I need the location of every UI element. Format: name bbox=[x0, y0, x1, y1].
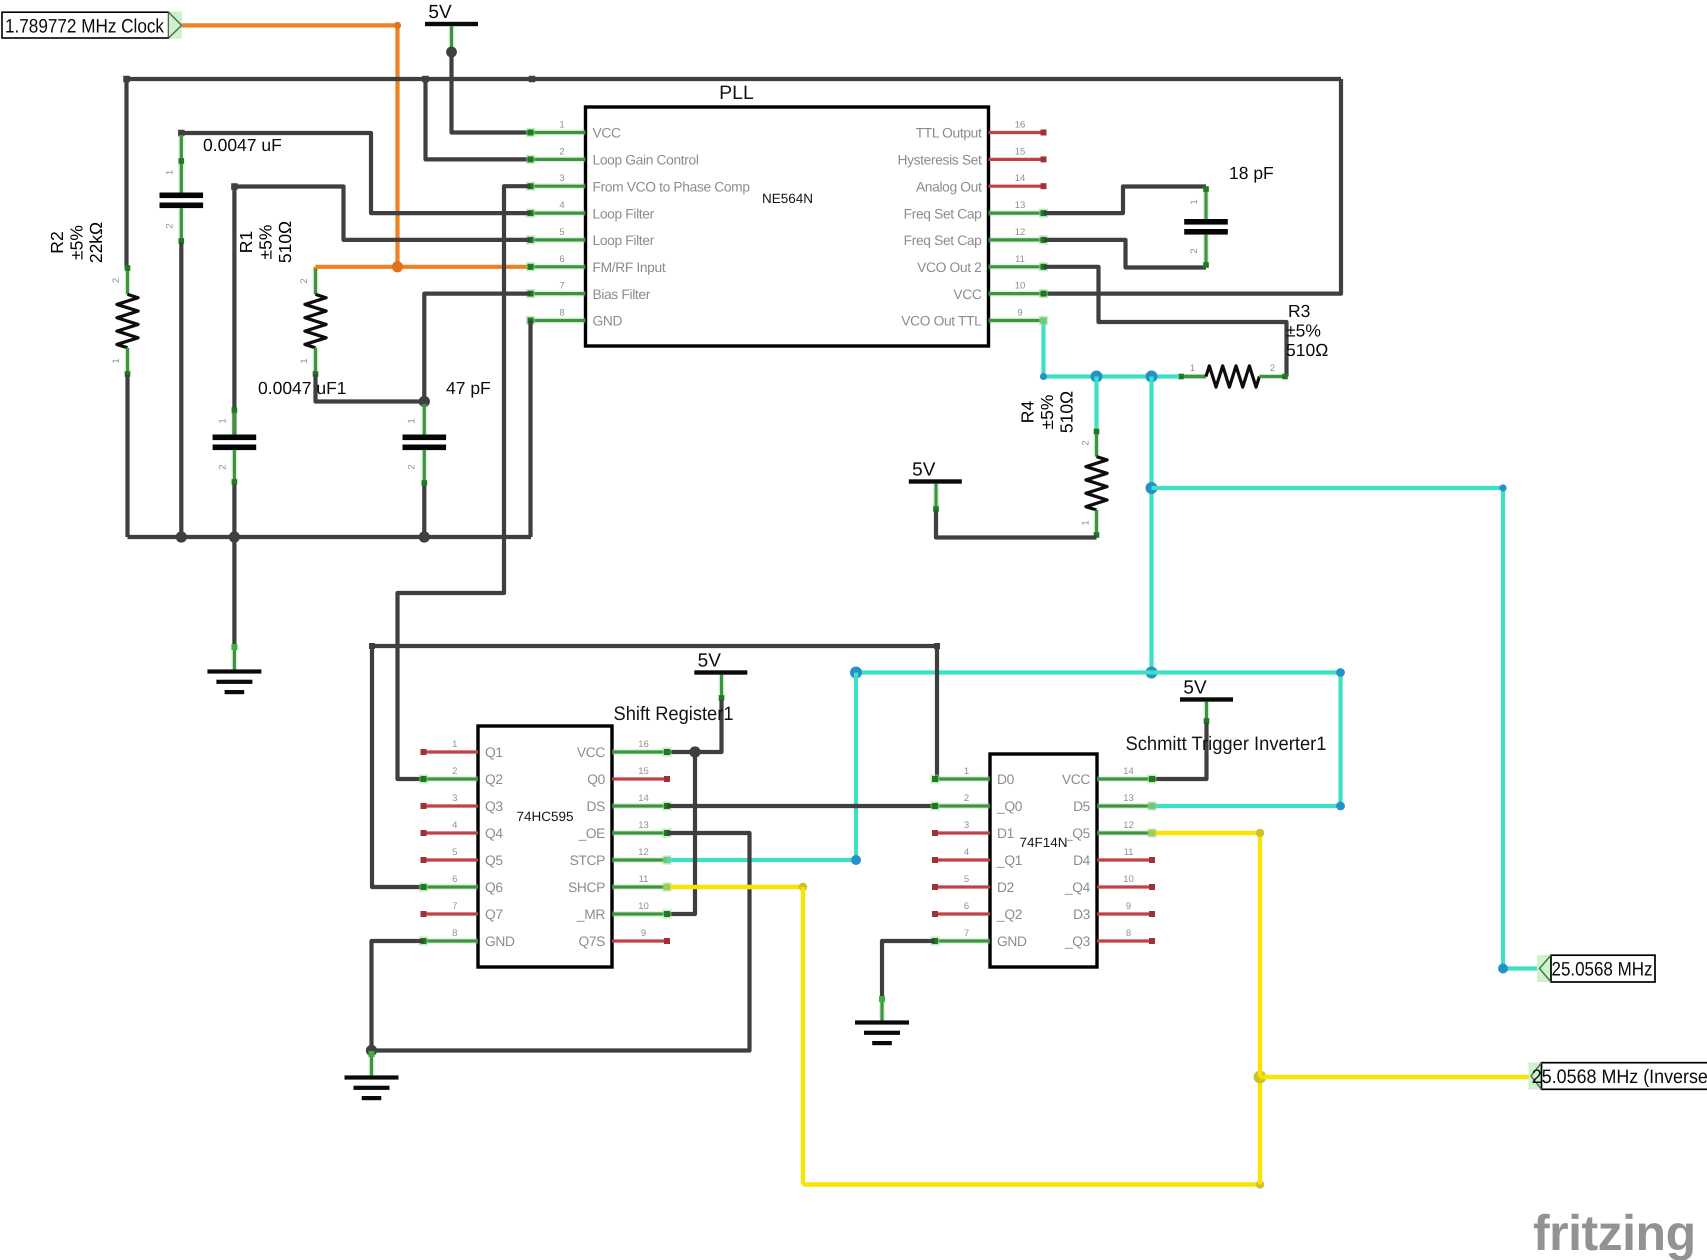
pin 9 VCO Out TTL (PLL right) bbox=[901, 308, 1048, 329]
svg-text:7: 7 bbox=[559, 281, 564, 292]
pin 6 FM/RF Input (PLL left) bbox=[526, 254, 666, 275]
capacitor C2 0.0047 uF1 bbox=[213, 407, 257, 485]
pin 8 GND (74HC595 left) bbox=[419, 928, 515, 949]
svg-text:1: 1 bbox=[111, 358, 122, 363]
node SR rail left corner bbox=[369, 643, 375, 649]
svg-text:Q0: Q0 bbox=[587, 772, 605, 787]
svg-text:fritzing: fritzing bbox=[1533, 1205, 1696, 1260]
ground G3 bbox=[855, 1020, 909, 1045]
svg-text:4: 4 bbox=[559, 200, 564, 211]
svg-text:3: 3 bbox=[964, 820, 969, 831]
wire R1 bottom to junction bbox=[316, 375, 425, 402]
svg-text:Freq Set Cap: Freq Set Cap bbox=[904, 233, 983, 248]
pin 14 DS (74HC595 right) bbox=[587, 793, 672, 814]
node cyan bend out1 bbox=[1499, 484, 1506, 491]
svg-text:510Ω: 510Ω bbox=[1286, 340, 1328, 360]
ground G1 bbox=[207, 669, 261, 694]
svg-text:2: 2 bbox=[218, 464, 229, 469]
pin 12 _Q5 (74F14N right) bbox=[1064, 820, 1157, 841]
svg-text:1: 1 bbox=[1189, 199, 1200, 204]
svg-text:From VCO to Phase Comp: From VCO to Phase Comp bbox=[593, 179, 751, 194]
pin 12 Freq Set Cap (PLL right) bbox=[904, 227, 1048, 248]
op-amp/IC U1 PLL NE564N body bbox=[586, 82, 989, 346]
svg-text:11: 11 bbox=[1124, 847, 1134, 858]
svg-text:_MR: _MR bbox=[576, 907, 605, 922]
pin 15 Q0 (74HC595 right) bbox=[587, 766, 670, 787]
pin numbers R1 bbox=[299, 278, 310, 363]
label C2 value bbox=[258, 378, 347, 398]
pin numbers C3 bbox=[407, 418, 418, 469]
pin 2 _Q0 (74F14N left) bbox=[930, 793, 1022, 814]
IC U2 74HC595 Shift Register1 body bbox=[478, 703, 734, 967]
pin 8 GND (PLL left) bbox=[526, 308, 623, 329]
svg-text:Q4: Q4 bbox=[485, 826, 503, 841]
wire GND F14 to ground bbox=[882, 941, 935, 996]
fritzing watermark bbox=[1533, 1205, 1696, 1260]
wire GND pin8 down to rail bbox=[528, 321, 532, 538]
wire From-VCO pin3 to 74HC595 Q2 bbox=[398, 186, 531, 779]
pin 10 _Q4 (74F14N right) bbox=[1064, 874, 1155, 895]
wire CLK orange horizontal bbox=[182, 23, 398, 27]
svg-text:2: 2 bbox=[964, 793, 969, 804]
node rail junction C2/gnd bbox=[229, 531, 240, 542]
node rail junction C1 bbox=[176, 531, 187, 542]
svg-text:2: 2 bbox=[1270, 363, 1275, 374]
node cyan bend out2 bbox=[1498, 964, 1508, 974]
wire CLK orange vertical bbox=[395, 25, 399, 267]
pin 2 Q2 (74HC595 left) bbox=[419, 766, 503, 787]
node yellow SHCP end bbox=[664, 884, 671, 891]
svg-text:Q2: Q2 bbox=[485, 772, 503, 787]
pin 13 _OE (74HC595 right) bbox=[577, 820, 671, 841]
svg-text:5: 5 bbox=[452, 847, 457, 858]
node SHCP tip bbox=[664, 884, 670, 890]
wire yellow SHCP out bbox=[667, 885, 803, 889]
resistor R3 bbox=[1178, 366, 1288, 387]
svg-text:10: 10 bbox=[1123, 874, 1134, 885]
wire 5V to VCC pin1 bbox=[452, 52, 531, 133]
wire yellow up bbox=[1258, 1077, 1262, 1185]
svg-text:13: 13 bbox=[638, 820, 649, 831]
svg-text:14: 14 bbox=[1123, 766, 1134, 777]
node orange junction at R1/pin6 bbox=[392, 261, 403, 272]
svg-text:D2: D2 bbox=[997, 880, 1014, 895]
pin 1 D0 (74F14N left) bbox=[930, 766, 1014, 787]
ground G2 bbox=[345, 1075, 399, 1100]
svg-text:Shift Register1: Shift Register1 bbox=[614, 703, 734, 725]
svg-text:14: 14 bbox=[1015, 173, 1026, 184]
node rail connection A bbox=[422, 76, 429, 83]
svg-text:Hysteresis Set: Hysteresis Set bbox=[897, 153, 982, 168]
svg-text:R1: R1 bbox=[236, 231, 256, 253]
svg-text:D0: D0 bbox=[997, 772, 1015, 787]
svg-text:D1: D1 bbox=[997, 826, 1014, 841]
pin stub ground G3 bbox=[879, 996, 885, 1022]
label R2 value bbox=[47, 222, 106, 263]
svg-text:Loop Filter: Loop Filter bbox=[593, 233, 655, 248]
svg-text:11: 11 bbox=[639, 874, 649, 885]
pin 5 Loop Filter (PLL left) bbox=[526, 227, 655, 248]
pin 4 Q4 (74HC595 left) bbox=[421, 820, 504, 841]
pin 13 D5 (74F14N right) bbox=[1073, 793, 1157, 814]
svg-text:11: 11 bbox=[1015, 254, 1025, 265]
wire yellow bottom bbox=[803, 1182, 1260, 1186]
pin 11 D4 (74F14N right) bbox=[1073, 847, 1155, 868]
wire C2 bottom to rail bbox=[232, 485, 236, 538]
svg-text:_Q4: _Q4 bbox=[1064, 880, 1091, 895]
svg-text:7: 7 bbox=[452, 901, 457, 912]
svg-text:6: 6 bbox=[964, 901, 969, 912]
svg-text:±5%: ±5% bbox=[1286, 321, 1321, 341]
wire rail right end down to VCC pin10 bbox=[1044, 79, 1342, 294]
node yellow bend3 bbox=[1256, 829, 1264, 837]
svg-text:13: 13 bbox=[1123, 793, 1134, 804]
wire cyan to R4 bbox=[1094, 377, 1098, 430]
label R1 value bbox=[236, 221, 295, 263]
power 5V (PLL VCC) bbox=[425, 2, 478, 26]
wire cyan VCO Out TTL pin9 down bbox=[1044, 321, 1180, 377]
wire Freq Set Cap pin13 to C4 bbox=[1044, 187, 1207, 214]
node junction R1/C3/pin7 bbox=[419, 396, 430, 407]
wire rail down to Q6 bbox=[372, 646, 424, 887]
svg-text:9: 9 bbox=[1126, 901, 1131, 912]
svg-text:12: 12 bbox=[1123, 820, 1134, 831]
wire _OE down to bottom rail bbox=[372, 833, 750, 1051]
svg-text:Schmitt Trigger Inverter1: Schmitt Trigger Inverter1 bbox=[1126, 733, 1327, 755]
net label CLK 1.789772 MHz Clock bbox=[2, 12, 182, 39]
pin 5 Q5 (74HC595 left) bbox=[421, 847, 504, 868]
wire 5V to R4 pin1 bbox=[936, 511, 1097, 538]
svg-text:8: 8 bbox=[452, 928, 457, 939]
pin stub 5V F14 bbox=[1203, 702, 1209, 724]
pin 16 TTL Output (PLL right) bbox=[916, 120, 1047, 141]
pin 7 Bias Filter (PLL left) bbox=[526, 281, 651, 302]
label R3 value bbox=[1286, 301, 1328, 360]
pin 3 Q3 (74HC595 left) bbox=[421, 793, 504, 814]
svg-text:10: 10 bbox=[1015, 281, 1026, 292]
svg-text:2: 2 bbox=[452, 766, 457, 777]
pin 14 VCC (74F14N right) bbox=[1062, 766, 1157, 787]
svg-text:±5%: ±5% bbox=[67, 225, 87, 260]
wire VCO Out 2 pin11 to R3 pin2 bbox=[1044, 267, 1287, 377]
svg-text:VCC: VCC bbox=[953, 287, 981, 302]
pin numbers R3 bbox=[1190, 363, 1275, 374]
svg-text:GND: GND bbox=[485, 934, 515, 949]
pin 11 SHCP (74HC595 right) bbox=[568, 874, 672, 895]
node yellow bend2 bbox=[1256, 1180, 1264, 1188]
svg-text:R3: R3 bbox=[1288, 301, 1310, 321]
svg-text:2: 2 bbox=[1189, 248, 1200, 253]
svg-text:5V: 5V bbox=[698, 651, 722, 672]
node yellow _Q5 end bbox=[1149, 830, 1156, 837]
node cyan bend STCP bbox=[851, 855, 861, 865]
pin 5 D2 (74F14N left) bbox=[932, 874, 1014, 895]
svg-text:Q5: Q5 bbox=[485, 853, 503, 868]
svg-text:Bias Filter: Bias Filter bbox=[593, 287, 651, 302]
pin 1 VCC (PLL left) bbox=[526, 120, 621, 141]
node D5 tip bbox=[1149, 803, 1155, 809]
svg-text:510Ω: 510Ω bbox=[275, 221, 295, 263]
node orange bendpoint bbox=[394, 22, 401, 29]
svg-text:VCC: VCC bbox=[577, 745, 605, 760]
node yellow bend1 bbox=[799, 883, 807, 891]
node C1 top corner bbox=[178, 130, 185, 137]
svg-text:510Ω: 510Ω bbox=[1057, 391, 1077, 433]
svg-text:8: 8 bbox=[559, 308, 564, 319]
svg-text:_Q1: _Q1 bbox=[996, 853, 1022, 868]
pin 10 _MR (74HC595 right) bbox=[576, 901, 672, 922]
svg-text:Q7S: Q7S bbox=[578, 934, 605, 949]
pin stub 5V R4 bbox=[933, 484, 939, 512]
svg-text:Freq Set Cap: Freq Set Cap bbox=[904, 206, 983, 221]
svg-text:R2: R2 bbox=[47, 231, 67, 253]
net label OUTINV 25.0568 MHz (Inversed) bbox=[1529, 1063, 1707, 1090]
power 5V (74F14N) bbox=[1180, 678, 1233, 702]
svg-text:_Q3: _Q3 bbox=[1064, 934, 1091, 949]
svg-text:7: 7 bbox=[964, 928, 969, 939]
power 5V (R4) bbox=[909, 460, 962, 484]
svg-text:4: 4 bbox=[452, 820, 457, 831]
svg-text:_OE: _OE bbox=[577, 826, 605, 841]
node 5V junction dot bbox=[446, 47, 457, 58]
svg-text:2: 2 bbox=[559, 146, 564, 157]
svg-text:2: 2 bbox=[1081, 440, 1092, 445]
wire R2 bottom to rail bbox=[125, 375, 129, 538]
wire C3 bottom to rail bbox=[422, 486, 426, 537]
node SR rail right corner bbox=[934, 643, 940, 649]
svg-text:_Q5: _Q5 bbox=[1064, 826, 1091, 841]
wire VCC to _MR bbox=[667, 752, 695, 914]
pin 14 Analog Out (PLL right) bbox=[916, 173, 1047, 194]
pin 6 _Q2 (74F14N left) bbox=[932, 901, 1022, 922]
svg-text:1: 1 bbox=[299, 358, 310, 363]
wire cyan right to D5 bbox=[1152, 673, 1341, 807]
svg-text:2: 2 bbox=[299, 278, 310, 283]
node cyan junction STCP bbox=[850, 667, 862, 679]
svg-text:16: 16 bbox=[1015, 120, 1026, 131]
wire yellow down bbox=[801, 887, 805, 1185]
svg-text:13: 13 bbox=[1015, 200, 1026, 211]
wire DS to _Q0 bbox=[667, 804, 935, 808]
resistor R1 bbox=[305, 269, 326, 377]
pin 11 VCO Out 2 (PLL right) bbox=[917, 254, 1048, 275]
svg-text:Q3: Q3 bbox=[485, 799, 503, 814]
wire bottom rail (PLL) bbox=[128, 535, 532, 539]
svg-text:R4: R4 bbox=[1018, 401, 1038, 424]
svg-text:2: 2 bbox=[407, 464, 418, 469]
svg-text:16: 16 bbox=[638, 739, 649, 750]
node cyan bend pin9 bbox=[1040, 373, 1047, 380]
wire GND595 to ground bbox=[372, 941, 424, 1051]
pin 12 STCP (74HC595 right) bbox=[570, 847, 672, 868]
wire rail to ground symbol bbox=[232, 537, 236, 644]
wire yellow from _Q5 bbox=[1152, 833, 1260, 1077]
pin numbers C4 bbox=[1189, 199, 1200, 253]
node rail left corner bbox=[123, 76, 130, 83]
capacitor C4 18 pF bbox=[1184, 186, 1228, 268]
resistor R4 bbox=[1086, 429, 1107, 538]
svg-text:2: 2 bbox=[165, 223, 176, 228]
svg-text:1: 1 bbox=[1081, 520, 1092, 525]
pin 3 From VCO to Phase Comp (PLL left) bbox=[526, 173, 750, 194]
svg-text:3: 3 bbox=[559, 173, 564, 184]
svg-text:2: 2 bbox=[111, 278, 122, 283]
svg-text:74F14N: 74F14N bbox=[1019, 835, 1067, 850]
pin 13 Freq Set Cap (PLL right) bbox=[904, 200, 1048, 221]
svg-text:Q7: Q7 bbox=[485, 907, 503, 922]
svg-text:GND: GND bbox=[997, 934, 1027, 949]
svg-text:Loop Filter: Loop Filter bbox=[593, 206, 655, 221]
svg-text:TTL Output: TTL Output bbox=[916, 126, 982, 141]
svg-text:74HC595: 74HC595 bbox=[516, 809, 573, 824]
svg-text:Q1: Q1 bbox=[485, 745, 503, 760]
svg-text:18 pF: 18 pF bbox=[1229, 163, 1274, 183]
node _Q5 tip bbox=[1149, 830, 1155, 836]
label C4 value bbox=[1229, 163, 1274, 183]
svg-text:Analog Out: Analog Out bbox=[916, 179, 982, 194]
node cyan junction main bbox=[1146, 371, 1158, 383]
pin 4 Loop Filter (PLL left) bbox=[526, 200, 655, 221]
svg-text:9: 9 bbox=[1017, 308, 1022, 319]
svg-text:15: 15 bbox=[1015, 146, 1026, 157]
svg-text:_Q2: _Q2 bbox=[996, 907, 1022, 922]
net label OUT 25.0568 MHz bbox=[1537, 955, 1655, 982]
pin 7 Q7 (74HC595 left) bbox=[421, 901, 503, 922]
pin 16 VCC (74HC595 right) bbox=[577, 739, 672, 760]
svg-text:NE564N: NE564N bbox=[762, 191, 813, 206]
svg-text:±5%: ±5% bbox=[256, 225, 276, 260]
wire Freq Set Cap pin12 to C4 bbox=[1044, 240, 1207, 268]
svg-text:47 pF: 47 pF bbox=[446, 378, 491, 398]
node junction ground SR bbox=[366, 1045, 377, 1056]
svg-text:9: 9 bbox=[641, 928, 646, 939]
svg-text:±5%: ±5% bbox=[1037, 395, 1057, 430]
pin 2 Loop Gain Control (PLL left) bbox=[526, 146, 699, 167]
svg-text:1: 1 bbox=[407, 418, 418, 423]
svg-text:GND: GND bbox=[593, 314, 623, 329]
power 5V (74HC595) bbox=[694, 651, 747, 675]
svg-text:1: 1 bbox=[1190, 363, 1195, 374]
wire Bias Filter pin7 to junction bbox=[424, 294, 530, 402]
svg-text:1: 1 bbox=[452, 739, 457, 750]
wire cyan to output label bbox=[1152, 488, 1540, 969]
node cyan junction row bbox=[1146, 667, 1158, 679]
pin numbers R4 bbox=[1081, 440, 1092, 525]
pin stub 5V 595 bbox=[718, 675, 724, 701]
node yellow junction bbox=[1254, 1071, 1267, 1084]
svg-text:VCO Out 2: VCO Out 2 bbox=[917, 260, 981, 275]
svg-text:4: 4 bbox=[964, 847, 969, 858]
wire cyan down to STCP bbox=[667, 673, 856, 861]
wire 5V to VCC595 bbox=[667, 700, 722, 752]
pin numbers C2 bbox=[218, 418, 229, 469]
pin stub ground G2 bbox=[368, 1051, 374, 1077]
svg-text:1.789772 MHz Clock: 1.789772 MHz Clock bbox=[5, 16, 164, 38]
node junction VCC/_MR bbox=[689, 746, 700, 757]
label C3 value bbox=[446, 378, 491, 398]
wire C2 top to pin5 Loop Filter bbox=[234, 187, 530, 435]
wire top 5V rail bbox=[127, 77, 1342, 81]
wire C1 top to pin4 Loop Filter bbox=[181, 133, 530, 213]
wire rail to Loop Gain pin2 bbox=[426, 79, 531, 159]
svg-text:6: 6 bbox=[452, 874, 457, 885]
svg-text:1: 1 bbox=[964, 766, 969, 777]
node cyan end D5 bbox=[1149, 803, 1156, 810]
node cyan junction R4 bbox=[1091, 371, 1103, 383]
wire cyan horizontal row bbox=[856, 670, 1341, 674]
svg-text:FM/RF Input: FM/RF Input bbox=[593, 260, 666, 275]
svg-text:25.0568 MHz: 25.0568 MHz bbox=[1552, 959, 1653, 981]
svg-text:0.0047 uF: 0.0047 uF bbox=[203, 135, 282, 155]
IC U3 74F14N Schmitt Trigger Inverter1 body bbox=[990, 733, 1327, 967]
node cyan bend D5b bbox=[1336, 802, 1345, 811]
pin 1 Q1 (74HC595 left) bbox=[421, 739, 503, 760]
pin 10 VCC (PLL right) bbox=[953, 281, 1048, 302]
node cyan bend D5a bbox=[1336, 668, 1345, 677]
svg-text:1: 1 bbox=[165, 170, 176, 175]
svg-text:SHCP: SHCP bbox=[568, 880, 605, 895]
svg-text:5V: 5V bbox=[912, 460, 936, 481]
pin numbers C1 bbox=[165, 170, 176, 229]
svg-text:PLL: PLL bbox=[719, 82, 754, 104]
pin stub ground G1 bbox=[231, 644, 237, 671]
svg-text:5V: 5V bbox=[1183, 678, 1207, 699]
svg-text:D3: D3 bbox=[1073, 907, 1091, 922]
node rail connection B bbox=[529, 76, 536, 83]
svg-text:5: 5 bbox=[964, 874, 969, 885]
wire orange stub to R1 bbox=[313, 267, 317, 271]
svg-text:Loop Gain Control: Loop Gain Control bbox=[593, 153, 699, 168]
wire 5V to VCC F14 bbox=[1152, 723, 1207, 779]
svg-text:14: 14 bbox=[638, 793, 649, 804]
node pin9 tip bbox=[1040, 317, 1046, 323]
svg-text:22kΩ: 22kΩ bbox=[86, 222, 106, 263]
wire cyan main vertical bbox=[1149, 377, 1153, 673]
svg-text:12: 12 bbox=[1015, 227, 1026, 238]
capacitor C3 47 pF bbox=[403, 404, 447, 486]
svg-text:5: 5 bbox=[559, 227, 564, 238]
svg-text:6: 6 bbox=[559, 254, 564, 265]
svg-text:12: 12 bbox=[638, 847, 649, 858]
svg-text:VCO Out TTL: VCO Out TTL bbox=[901, 314, 982, 329]
svg-text:STCP: STCP bbox=[570, 853, 606, 868]
pin 6 Q6 (74HC595 left) bbox=[419, 874, 503, 895]
pin 7 GND (74F14N left) bbox=[930, 928, 1027, 949]
svg-text:15: 15 bbox=[638, 766, 649, 777]
wire CLK orange to FM/RF pin6 bbox=[316, 265, 531, 269]
wire rail down to D0 bbox=[936, 646, 937, 779]
pin 8 _Q3 (74F14N right) bbox=[1064, 928, 1155, 949]
pin 4 _Q1 (74F14N left) bbox=[932, 847, 1022, 868]
label R4 value bbox=[1018, 391, 1077, 433]
svg-text:Q6: Q6 bbox=[485, 880, 503, 895]
pin stub 5V PLL bbox=[448, 26, 454, 50]
capacitor C1 0.0047 uF bbox=[160, 135, 204, 244]
svg-text:25.0568 MHz (Inversed): 25.0568 MHz (Inversed) bbox=[1532, 1066, 1707, 1088]
pin 9 Q7S (74HC595 right) bbox=[578, 928, 670, 949]
svg-text:D4: D4 bbox=[1073, 853, 1091, 868]
svg-text:1: 1 bbox=[559, 120, 564, 131]
pin 15 Hysteresis Set (PLL right) bbox=[897, 146, 1046, 167]
node STCP tip bbox=[664, 857, 671, 863]
node cyan junction out bbox=[1146, 482, 1158, 494]
svg-text:0.0047 uF1: 0.0047 uF1 bbox=[258, 378, 347, 398]
svg-text:8: 8 bbox=[1126, 928, 1131, 939]
svg-text:3: 3 bbox=[452, 793, 457, 804]
svg-text:VCC: VCC bbox=[593, 126, 621, 141]
svg-text:VCC: VCC bbox=[1062, 772, 1090, 787]
svg-text:DS: DS bbox=[587, 799, 606, 814]
